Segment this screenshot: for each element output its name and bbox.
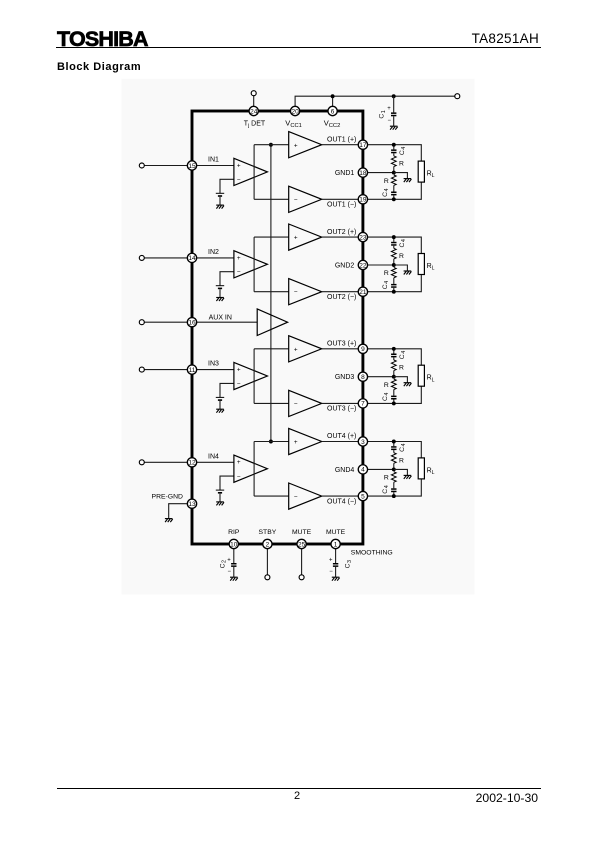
- svg-text:C4: C4: [399, 147, 407, 155]
- op-amp A4 (input): [234, 455, 268, 482]
- pin 16 AUX IN: [187, 318, 196, 327]
- node out- junction: [392, 197, 396, 201]
- svg-text:R: R: [384, 270, 389, 277]
- op-amp P2 (OUT2 +): [289, 224, 322, 250]
- pin 20: [290, 106, 299, 115]
- wire R to C4 lower: [393, 482, 395, 488]
- wire pin 24 to terminal: [253, 95, 255, 106]
- capacitor C4 upper ch1: [391, 149, 396, 151]
- wire to C4 upper: [393, 237, 395, 242]
- resistor RL ch1: [418, 161, 424, 182]
- svg-text:C2: C2: [219, 560, 227, 568]
- svg-text:R: R: [399, 365, 404, 372]
- svg-text:2: 2: [266, 541, 270, 548]
- terminal Vcc right end: [455, 94, 460, 99]
- wire P4 to pin 3: [322, 441, 359, 443]
- ground below A3 cap: [216, 409, 224, 413]
- wire C1 to ground: [393, 116, 395, 126]
- wire C2 to ground: [233, 567, 235, 577]
- IC package boundary: [192, 111, 363, 544]
- pin 14 IN2: [187, 253, 196, 262]
- svg-text:R: R: [399, 161, 404, 168]
- wire pin 16 to aux amp: [197, 321, 258, 323]
- pin 9 OUT3+: [358, 344, 367, 353]
- svg-text:5: 5: [361, 493, 365, 500]
- svg-text:+: +: [294, 346, 298, 353]
- wire A2 - input to cap: [220, 272, 234, 286]
- resistor R lower ch2: [391, 267, 396, 277]
- capacitor A3 feedback: [216, 396, 224, 398]
- node out+ junction: [392, 440, 396, 444]
- svg-text:19: 19: [359, 197, 367, 204]
- pin 19 OUT1-: [358, 195, 367, 204]
- ground at divider ch1: [404, 179, 412, 183]
- svg-text:R: R: [384, 178, 389, 185]
- pin 6: [328, 106, 337, 115]
- resistor R upper ch4: [391, 453, 396, 464]
- svg-text:IN4: IN4: [208, 453, 219, 460]
- terminal IN2: [139, 255, 144, 260]
- wire C4 to R: [393, 357, 395, 360]
- pin 17 OUT1+: [358, 140, 367, 149]
- wire N3 to pin 7: [322, 402, 359, 404]
- label C1: [379, 110, 387, 118]
- svg-text:−: −: [227, 569, 231, 575]
- op-amp N4 (OUT4 &#8722;): [289, 483, 322, 509]
- capacitor C4 lower ch2: [391, 284, 396, 286]
- wire channel 2 local bus: [253, 237, 255, 292]
- title Block Diagram: [57, 61, 141, 73]
- svg-text:+: +: [227, 557, 231, 563]
- svg-text:+: +: [237, 459, 241, 466]
- label C4 upper: [399, 239, 407, 247]
- wire pin 8 to divider node: [368, 376, 394, 378]
- svg-text:OUT3 (−): OUT3 (−): [327, 406, 356, 413]
- wire pin 18 to divider node: [368, 172, 394, 174]
- terminal above pin 24: [251, 91, 256, 96]
- ground below A1 cap: [216, 205, 224, 209]
- wire stub to P1 amp: [254, 144, 289, 146]
- op-amp A2 (input): [234, 251, 268, 278]
- svg-text:−: −: [237, 381, 241, 388]
- wire pin 15 to amp A1 + input: [197, 165, 234, 167]
- pin 12 IN4: [187, 458, 196, 467]
- node rail-C1 junction: [392, 94, 396, 98]
- svg-text:8: 8: [361, 374, 365, 381]
- svg-text:SMOOTHING: SMOOTHING: [351, 549, 393, 556]
- wire C4 to out-: [393, 492, 395, 496]
- svg-text:STBY: STBY: [259, 529, 277, 536]
- label C4 upper: [399, 147, 407, 155]
- capacitor C3: [333, 563, 338, 565]
- svg-text:GND3: GND3: [335, 374, 355, 381]
- resistor RL ch4: [418, 458, 424, 479]
- wire pin 7 to RL: [368, 386, 422, 403]
- footer rule: [57, 788, 541, 789]
- svg-text:−: −: [294, 289, 298, 296]
- ground below A2 cap: [216, 298, 224, 302]
- svg-text:OUT2 (−): OUT2 (−): [327, 294, 356, 301]
- svg-text:C4: C4: [382, 281, 390, 289]
- wire cap to ground: [219, 494, 221, 502]
- svg-text:11: 11: [189, 367, 196, 374]
- svg-text:24: 24: [250, 108, 258, 115]
- wire R to C4 lower: [393, 185, 395, 191]
- ground PRE-GND: [165, 519, 173, 523]
- svg-text:−: −: [237, 177, 241, 184]
- svg-text:1: 1: [334, 541, 338, 548]
- svg-text:GND1: GND1: [335, 170, 355, 177]
- wire rail to C1: [393, 96, 395, 112]
- resistor R upper ch3: [391, 360, 396, 371]
- wire C4 to R: [393, 450, 395, 453]
- ground at divider ch3: [404, 383, 412, 387]
- wire channel 1 local bus: [253, 145, 255, 200]
- ground at divider ch4: [404, 475, 412, 479]
- svg-text:R: R: [384, 475, 389, 482]
- wire node to ground: [394, 265, 408, 271]
- pin 18 GND1: [358, 168, 367, 177]
- part number TA8251AH: [388, 31, 539, 46]
- svg-text:R: R: [399, 253, 404, 260]
- wire to C4 upper: [393, 349, 395, 354]
- svg-text:25: 25: [298, 541, 306, 548]
- svg-text:C4: C4: [399, 239, 407, 247]
- wire stub to N3 amp: [254, 402, 289, 404]
- wire pin 25 to terminal: [301, 549, 303, 575]
- wire C4 to out-: [393, 288, 395, 292]
- label C4 lower: [382, 188, 390, 196]
- pin 13 PRE-GND: [187, 499, 196, 508]
- terminal below pin 25: [299, 575, 304, 580]
- resistor RL ch3: [418, 365, 424, 386]
- svg-text:−: −: [294, 494, 298, 501]
- pin 7 OUT3-: [358, 399, 367, 408]
- op-amp P1 (OUT1 +): [289, 132, 322, 158]
- capacitor C4 upper ch4: [391, 446, 396, 448]
- terminal IN4: [139, 460, 144, 465]
- wire rail to pin 6: [332, 96, 334, 106]
- pin 1 MUTE SMOOTHING: [331, 539, 340, 548]
- op-amp A1 (input): [234, 158, 268, 185]
- label C4 lower: [382, 393, 390, 401]
- label C4 upper: [399, 351, 407, 359]
- svg-text:+: +: [237, 255, 241, 262]
- wire Vcc rail from pin 20: [295, 96, 455, 106]
- svg-text:OUT4 (−): OUT4 (−): [327, 498, 356, 505]
- wire N1 to pin 19: [322, 198, 359, 200]
- op-amp N2 (OUT2 &#8722;): [289, 279, 322, 305]
- label C4 lower: [382, 485, 390, 493]
- wire C4 to R: [393, 246, 395, 249]
- op-amp N1 (OUT1 &#8722;): [289, 186, 322, 212]
- wire R to node: [393, 259, 395, 265]
- resistor R upper ch1: [391, 156, 396, 167]
- svg-text:IN1: IN1: [208, 157, 219, 164]
- wire node to ground: [394, 377, 408, 383]
- wire C4 to R: [393, 153, 395, 156]
- svg-text:9: 9: [361, 346, 365, 353]
- resistor RL ch2: [418, 254, 424, 275]
- wire R to C4 lower: [393, 390, 395, 396]
- wire input terminal to pin 15: [144, 165, 187, 167]
- terminal below pin 2: [265, 575, 270, 580]
- wire cap to ground: [219, 401, 221, 409]
- label C4 lower: [382, 281, 390, 289]
- pin 3 OUT4+: [358, 437, 367, 446]
- wire A1 - input to cap: [220, 179, 234, 193]
- wire pin 4 to divider node: [368, 468, 394, 470]
- op-amp P4 (OUT4 +): [289, 428, 322, 454]
- capacitor C1: [391, 112, 396, 114]
- node out+ junction: [392, 347, 396, 351]
- wire A4 - input to cap: [220, 476, 234, 490]
- svg-text:−: −: [387, 118, 391, 124]
- wire pin 9 to RL: [368, 349, 422, 365]
- wire input terminal to pin 14: [144, 257, 187, 259]
- svg-text:R: R: [384, 382, 389, 389]
- wire cap to ground: [219, 289, 221, 297]
- svg-text:17: 17: [359, 142, 367, 149]
- terminal AUX IN: [139, 320, 144, 325]
- label C3: [345, 560, 353, 568]
- pin 24: [249, 106, 258, 115]
- wire stub to N2 amp: [254, 291, 289, 293]
- wire pin 13 to ground: [169, 504, 188, 519]
- node aux bus bottom junction: [269, 440, 273, 444]
- wire P2 to pin 23: [322, 236, 359, 238]
- wire R to C4 lower: [393, 278, 395, 284]
- node out+ junction: [392, 143, 396, 147]
- svg-text:+: +: [294, 235, 298, 242]
- node out- junction: [392, 401, 396, 405]
- terminal IN1: [139, 163, 144, 168]
- op-amp N3 (OUT3 &#8722;): [289, 390, 322, 416]
- svg-text:OUT1 (−): OUT1 (−): [327, 202, 356, 209]
- wire pin 23 to RL: [368, 237, 422, 253]
- svg-text:IN3: IN3: [208, 361, 219, 368]
- svg-text:−: −: [294, 197, 298, 204]
- capacitor C4 upper ch3: [391, 354, 396, 356]
- svg-text:C1: C1: [379, 110, 387, 118]
- svg-text:IN2: IN2: [208, 249, 219, 256]
- svg-text:−: −: [237, 269, 241, 276]
- wire pin 21 to RL: [368, 275, 422, 292]
- terminal IN3: [139, 367, 144, 372]
- capacitor C4 lower ch1: [391, 192, 396, 194]
- node aux bus top junction: [269, 143, 273, 147]
- pin 21 OUT2-: [358, 287, 367, 296]
- svg-text:+: +: [387, 106, 391, 112]
- wire C4 to out-: [393, 400, 395, 404]
- wire channel 4 local bus: [253, 442, 255, 497]
- resistor R upper ch2: [391, 248, 396, 259]
- label C4 upper: [399, 443, 407, 451]
- resistor R lower ch3: [391, 379, 396, 389]
- svg-text:GND4: GND4: [335, 467, 355, 474]
- node out- junction: [392, 290, 396, 294]
- svg-text:OUT3 (+): OUT3 (+): [327, 341, 356, 348]
- svg-text:OUT1 (+): OUT1 (+): [327, 136, 356, 143]
- node gnd junction: [392, 263, 396, 267]
- op-amp P3 (OUT3 +): [289, 336, 322, 362]
- svg-text:+: +: [294, 142, 298, 149]
- wire N4 to pin 5: [322, 495, 359, 497]
- pin 15 IN1: [187, 161, 196, 170]
- pin 25 MUTE: [297, 539, 306, 548]
- svg-text:GND2: GND2: [335, 263, 355, 270]
- wire pin 1 to C3: [335, 549, 337, 563]
- capacitor A2 feedback: [216, 285, 224, 287]
- capacitor A4 feedback: [216, 489, 224, 491]
- header rule: [56, 47, 541, 49]
- wire pin 10 to C2: [233, 549, 235, 563]
- wire P1 to pin 17: [322, 144, 359, 146]
- svg-text:C4: C4: [399, 443, 407, 451]
- page number: [247, 790, 347, 802]
- wire node to ground: [394, 469, 408, 475]
- wire C4 to out-: [393, 195, 395, 199]
- node gnd junction: [392, 171, 396, 175]
- wire R to node: [393, 167, 395, 173]
- wire pin 11 to amp A3 + input: [197, 369, 234, 371]
- pin 5 OUT4-: [358, 491, 367, 500]
- svg-text:22: 22: [359, 262, 367, 269]
- wire aux bus: [270, 145, 272, 442]
- label C2: [219, 560, 227, 568]
- node gnd junction: [392, 375, 396, 379]
- ground below A4 cap: [216, 502, 224, 506]
- node gnd junction: [392, 467, 396, 471]
- svg-text:16: 16: [188, 320, 196, 327]
- svg-text:−: −: [237, 474, 241, 481]
- svg-text:3: 3: [361, 439, 365, 446]
- pin 2 STBY: [263, 539, 272, 548]
- wire input terminal to pin 11: [144, 369, 187, 371]
- pin 8 GND3: [358, 372, 367, 381]
- node rail-pin6 junction: [331, 94, 335, 98]
- svg-text:C4: C4: [382, 393, 390, 401]
- Toshiba logo: [57, 27, 148, 52]
- svg-text:12: 12: [188, 460, 196, 467]
- svg-text:+: +: [294, 439, 298, 446]
- wire to C4 upper: [393, 145, 395, 150]
- ground below C3: [332, 577, 340, 581]
- capacitor C4 lower ch4: [391, 488, 396, 490]
- wire N2 to pin 21: [322, 291, 359, 293]
- op-amp AUX: [257, 309, 287, 336]
- svg-text:−: −: [294, 401, 298, 408]
- node out- junction: [392, 494, 396, 498]
- wire P3 to pin 9: [322, 348, 359, 350]
- svg-text:+: +: [237, 367, 241, 374]
- pin 10 RIP: [229, 539, 238, 548]
- ground at divider ch2: [404, 271, 412, 275]
- capacitor C2: [231, 563, 236, 565]
- date: [408, 791, 538, 805]
- pin 23 OUT2+: [358, 232, 367, 241]
- wire pin 3 to RL: [368, 442, 422, 458]
- wire pin 5 to RL: [368, 479, 422, 496]
- svg-text:23: 23: [359, 234, 367, 241]
- wire pin 14 to amp A2 + input: [197, 257, 234, 259]
- wire stub to N1 amp: [254, 198, 289, 200]
- wire aux terminal to pin 16: [144, 321, 187, 323]
- ground below C1: [390, 126, 398, 130]
- wire R to node: [393, 463, 395, 469]
- wire A3 - input to cap: [220, 383, 234, 397]
- wire stub to P4 amp: [254, 441, 289, 443]
- wire pin 17 to RL: [368, 145, 422, 161]
- svg-text:6: 6: [331, 108, 335, 115]
- wire input terminal to pin 12: [144, 461, 187, 463]
- svg-text:C3: C3: [345, 560, 353, 568]
- svg-text:C4: C4: [399, 351, 407, 359]
- svg-text:−: −: [329, 569, 333, 575]
- svg-text:7: 7: [361, 401, 365, 408]
- wire pin 2 to terminal: [266, 549, 268, 575]
- svg-text:+: +: [237, 162, 241, 169]
- wire pin 22 to divider node: [368, 264, 394, 266]
- capacitor C4 lower ch3: [391, 396, 396, 398]
- figure background: [122, 79, 475, 595]
- svg-text:10: 10: [230, 541, 238, 548]
- pin 4 GND4: [358, 465, 367, 474]
- wire C3 to ground: [335, 567, 337, 577]
- wire R to node: [393, 371, 395, 377]
- svg-text:18: 18: [359, 170, 367, 177]
- wire stub to P3 amp: [254, 348, 289, 350]
- svg-text:C4: C4: [382, 188, 390, 196]
- svg-text:AUX IN: AUX IN: [209, 314, 232, 321]
- svg-text:15: 15: [188, 163, 196, 170]
- svg-text:C4: C4: [382, 485, 390, 493]
- svg-text:R: R: [399, 457, 404, 464]
- capacitor A1 feedback: [216, 192, 224, 194]
- svg-text:MUTE: MUTE: [326, 529, 346, 536]
- svg-text:14: 14: [188, 255, 196, 262]
- svg-text:21: 21: [359, 289, 367, 296]
- svg-text:4: 4: [361, 467, 365, 474]
- svg-text:RIP: RIP: [228, 529, 240, 536]
- svg-text:OUT4 (+): OUT4 (+): [327, 433, 356, 440]
- svg-text:PRE-GND: PRE-GND: [152, 494, 183, 501]
- pin 11 IN3: [187, 365, 196, 374]
- op-amp A3 (input): [234, 362, 268, 389]
- wire stub to P2 amp: [254, 236, 289, 238]
- node out+ junction: [392, 235, 396, 239]
- svg-text:OUT2 (+): OUT2 (+): [327, 229, 356, 236]
- wire channel 3 local bus: [253, 349, 255, 404]
- svg-text:MUTE: MUTE: [292, 529, 312, 536]
- wire pin 19 to RL: [368, 182, 422, 199]
- wire stub to N4 amp: [254, 495, 289, 497]
- ground below C2: [230, 577, 238, 581]
- wire cap to ground: [219, 197, 221, 205]
- pin 22 GND2: [358, 260, 367, 269]
- wire to C4 upper: [393, 442, 395, 447]
- capacitor C4 upper ch2: [391, 242, 396, 244]
- svg-text:13: 13: [188, 501, 196, 508]
- wire node to ground: [394, 173, 408, 179]
- svg-text:+: +: [329, 557, 333, 563]
- resistor R lower ch4: [391, 472, 396, 482]
- wire pin 12 to amp A4 + input: [197, 461, 234, 463]
- resistor R lower ch1: [391, 175, 396, 185]
- svg-text:20: 20: [291, 108, 299, 115]
